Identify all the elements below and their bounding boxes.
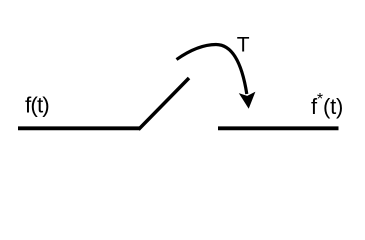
wire: input line <box>18 126 140 130</box>
arrow: sampling action (curved) <box>177 45 247 95</box>
switch arm (sampler blade) <box>139 78 190 130</box>
svg-text:f*(t): f*(t) <box>311 91 343 119</box>
svg-text:f(t): f(t) <box>25 92 49 117</box>
arrowhead <box>239 92 256 109</box>
wire: output line <box>218 126 339 130</box>
svg-text:T: T <box>237 34 250 57</box>
label f(t) input signal <box>25 92 49 117</box>
label T sampling period <box>237 34 250 57</box>
label f*(t) sampled signal <box>311 91 343 119</box>
